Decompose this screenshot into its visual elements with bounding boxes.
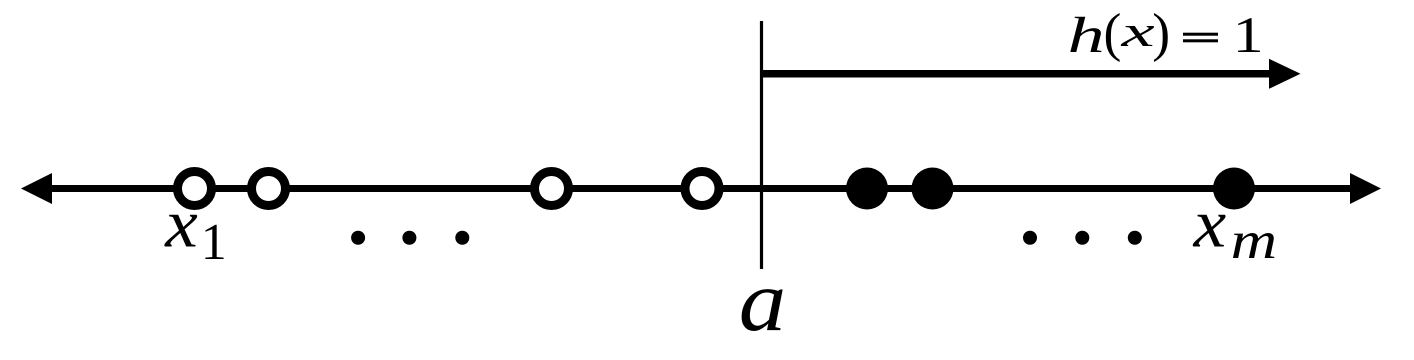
svg-text:x: x [1193,185,1227,261]
open point 2 [252,172,286,206]
filled point 2 [912,168,954,210]
open point x1 [178,172,212,206]
svg-text:(: ( [1104,3,1122,63]
number line (main horizontal axis) [48,185,1353,192]
filled point 1 [846,168,888,210]
filled point xm [1213,168,1255,210]
left arrowhead of number line [21,173,52,204]
arrow for h(x)=1 region [762,70,1273,78]
svg-text:a: a [739,252,787,349]
vertical line at a [760,21,763,269]
svg-text:1: 1 [1233,8,1264,64]
right arrowhead of number line [1350,173,1381,204]
svg-text:x: x [1120,9,1155,56]
open point 4 [685,172,719,206]
open point 3 [535,172,569,206]
svg-text:x: x [164,185,198,261]
svg-text:1: 1 [201,214,227,271]
arrowhead of h(x)=1 arrow [1269,59,1301,89]
svg-text:h: h [1068,8,1105,64]
svg-text:): ) [1152,3,1170,63]
right ellipsis dots [1023,231,1037,245]
svg-text:m: m [1231,212,1278,270]
left ellipsis dots [351,231,365,245]
